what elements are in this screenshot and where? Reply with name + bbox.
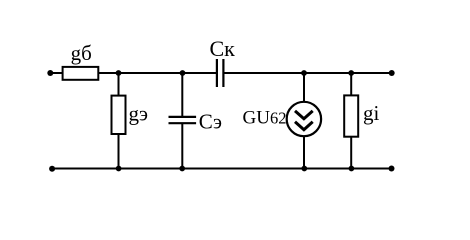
wire GU62 branch lower — [303, 136, 305, 169]
wire top: resistor gб to capacitor Ск — [98, 72, 217, 74]
wire Cэ branch upper — [181, 73, 183, 116]
wire GU62 branch upper — [303, 73, 305, 102]
wire top: capacitor Ск to right terminal — [223, 72, 392, 74]
node terminal bottom-right — [389, 166, 395, 172]
node junction bottom of GU62 branch — [301, 166, 307, 172]
svg-text:gэ: gэ — [129, 102, 149, 126]
current source chevron 2 — [295, 122, 313, 130]
resistor gб — [63, 67, 99, 80]
current source chevron 1 — [295, 111, 313, 119]
svg-text:gб: gб — [71, 41, 92, 65]
node input terminal top-left — [47, 70, 53, 76]
capacitor Ск — [217, 59, 224, 87]
node output terminal top-right — [389, 70, 395, 76]
node junction bottom of Cэ branch — [179, 166, 185, 172]
node junction bottom of gэ branch — [116, 166, 122, 172]
resistor gi — [344, 95, 358, 136]
wire gэ branch lower — [118, 134, 120, 169]
node junction top of Cэ branch — [180, 70, 186, 76]
node junction top of gэ branch — [116, 70, 122, 76]
wire top-left: terminal to resistor gб — [50, 72, 63, 74]
current source U1 GU62 — [287, 102, 321, 136]
wire gi branch upper — [350, 73, 352, 96]
node junction bottom of gi branch — [349, 166, 355, 172]
resistor gэ — [112, 96, 126, 134]
svg-text:GU62: GU62 — [243, 108, 287, 129]
node terminal bottom-left — [49, 166, 55, 172]
wire gi branch lower — [350, 137, 352, 169]
node junction top of gi branch — [348, 70, 354, 76]
svg-text:Сэ: Сэ — [199, 110, 222, 134]
node junction top of GU62 branch — [301, 70, 307, 76]
wire bottom rail — [52, 168, 392, 170]
wire Cэ branch lower — [181, 124, 183, 169]
svg-text:gi: gi — [363, 101, 380, 125]
svg-text:Ск: Ск — [210, 36, 236, 61]
wire gэ branch upper — [118, 73, 120, 96]
capacitor Cэ — [169, 117, 197, 123]
